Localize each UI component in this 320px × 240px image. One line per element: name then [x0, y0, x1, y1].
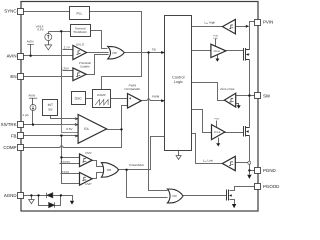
wire zero-cross output to Control Logic	[192, 83, 225, 101]
arrow zero-cross ground	[237, 105, 241, 109]
arrow high Drive return	[215, 59, 219, 62]
svg-text:0.6V: 0.6V	[37, 28, 43, 32]
glyph hysteresis OVP	[82, 159, 86, 163]
pin labels right	[263, 20, 279, 190]
wire PGND pin stub	[250, 170, 255, 172]
arrowheads	[70, 25, 252, 208]
wire Thermal Shutdown to OR1	[91, 31, 108, 49]
pin FB	[18, 133, 24, 139]
pin labels left	[1, 9, 17, 198]
wire VREF 0.6V vertical to reference box	[61, 32, 63, 125]
pin AGND	[18, 193, 24, 199]
wire EN row to Precision Enable	[24, 76, 73, 78]
glyph hysteresis Zero-cross	[230, 99, 234, 103]
wire SD: OR1 output to Control Logic	[125, 52, 163, 54]
wire Precision Enable output to OR1	[87, 55, 109, 75]
MOSFET Q1 high side P-FET	[244, 48, 250, 61]
wire zero-cross lower input stub	[236, 104, 239, 106]
glyph plus PWM comparator	[129, 97, 131, 99]
block Control Logic	[165, 16, 192, 151]
pin COMP	[18, 145, 24, 151]
wire 2.7V input to UVLO	[63, 49, 73, 51]
source VREF 0.6V	[45, 34, 52, 41]
wire SD vertical down to OR3	[149, 53, 168, 191]
PINS	[18, 9, 261, 199]
IC outline	[21, 2, 258, 212]
wire PowerBAD: OR2 output to Control Logic	[119, 137, 165, 170]
svg-text:AVIN: AVIN	[27, 40, 34, 44]
node AGND junction 1	[30, 194, 32, 196]
wire FB to OVP input	[62, 157, 80, 159]
block VREF 0.6V reference box at EA	[62, 125, 79, 133]
gate OR1 shutdown	[108, 46, 125, 59]
MOSFET Q3 PGOOD open drain	[227, 190, 232, 201]
svg-text:AGND: AGND	[4, 193, 17, 198]
wire OVP output to OR2	[93, 161, 104, 167]
arrow PWM into Control Logic	[161, 99, 165, 102]
bubble ILIM Low rail tap	[248, 161, 251, 164]
wire OR3 output to PGOOD FET gate	[183, 195, 227, 197]
wire Control Logic to high side Drive	[192, 50, 211, 52]
comparator UVLO	[73, 45, 87, 59]
svg-text:Logic: Logic	[174, 80, 183, 84]
wire high Drive bottom stem	[217, 55, 219, 59]
svg-text:0.6V: 0.6V	[66, 127, 72, 131]
node AGND junction 2	[37, 194, 39, 196]
svg-text:Comparator: Comparator	[124, 87, 140, 91]
svg-text:RAMP: RAMP	[97, 93, 106, 97]
node FB to OVP junction	[60, 156, 62, 158]
node FB junction	[60, 134, 62, 136]
diode D1 to AGND	[47, 193, 53, 198]
wire OSC to RAMP	[86, 98, 93, 100]
svg-text:0.54V: 0.54V	[61, 170, 69, 174]
arrow PGND rail ground	[247, 175, 251, 179]
svg-text:1 µA: 1 µA	[22, 113, 28, 117]
svg-text:COMP: COMP	[3, 145, 16, 150]
wire Control Logic to low side Drive	[192, 110, 212, 133]
wire AVIN row	[24, 55, 73, 57]
wire Control Logic ground stem	[178, 151, 180, 156]
node PGND rail junction	[248, 169, 250, 171]
comparator Zero-cross	[224, 93, 235, 107]
svg-text:OVP: OVP	[85, 151, 91, 155]
svg-text:OSC: OSC	[75, 97, 83, 101]
wire VREF source stems	[48, 32, 50, 45]
wire PGOOD FET source to ground arrow	[230, 200, 235, 205]
wire rail N-FET source to PGND	[249, 136, 251, 175]
glyph hysteresis UVLO	[77, 51, 81, 55]
svg-text:PVIN: PVIN	[214, 117, 220, 120]
svg-text:2.7V: 2.7V	[64, 46, 70, 50]
pin SW	[255, 93, 261, 99]
block Thermal Shutdown	[71, 25, 91, 37]
wire SW pin stub	[250, 95, 255, 97]
pin PVIN	[255, 20, 261, 26]
BLOCKS	[43, 7, 192, 151]
node SW rail junction	[248, 94, 250, 96]
node EA output COMP junction	[120, 128, 122, 130]
block RAMP	[93, 90, 111, 108]
label VREF 0.6V	[36, 24, 44, 31]
svg-text:PowerBAD: PowerBAD	[129, 163, 145, 167]
wire AVIN flag2 stem to 1uA source	[32, 99, 34, 125]
driver Drive high side	[211, 44, 226, 57]
pin SS/TRK	[18, 122, 24, 128]
diode D2 from AGND	[49, 202, 55, 207]
ground AGND flag	[29, 200, 35, 204]
wire FB vertical to OVP and UVP	[62, 136, 80, 184]
wire SS/TRK row to EA	[24, 124, 79, 126]
node SD junction	[147, 51, 149, 53]
wire PGOOD FET drain to PGOOD pin	[230, 187, 255, 191]
node PowerBAD junction	[125, 169, 127, 171]
svg-text:Control: Control	[172, 75, 184, 79]
glyph hysteresis ILIM High	[229, 25, 233, 29]
svg-text:Zero-cross: Zero-cross	[220, 87, 235, 91]
wire Control Logic to ILIM Low output	[192, 134, 223, 164]
wire SYNC to PLL	[24, 11, 70, 13]
glyph hysteresis ILIM Low	[229, 162, 233, 166]
glyph EA input chevrons	[75, 118, 78, 137]
wire AVIN flag stem	[30, 45, 32, 56]
arrow PGOOD FET source ground	[232, 204, 236, 208]
wire high Drive supply stem	[215, 39, 217, 47]
current source 1uA	[30, 105, 36, 111]
wire RAMP output to PWM comparator	[111, 98, 128, 100]
block PLL	[70, 7, 90, 20]
gate OR3 pgood driver	[167, 189, 183, 203]
svg-text:UVLO: UVLO	[76, 42, 85, 46]
block INT SS	[43, 100, 58, 116]
wire low Drive supply stem	[216, 121, 218, 128]
wire PowerBAD down to OR3	[127, 170, 168, 198]
node AVIN flag junction	[29, 55, 31, 57]
TRIANGLES	[73, 19, 236, 185]
svg-text:AVIN: AVIN	[28, 94, 35, 98]
glyph hysteresis Precision Enable	[76, 73, 80, 77]
wire INT SS output to EA	[51, 116, 79, 119]
arrow ILIM High sense into rail	[246, 25, 249, 28]
svg-text:PVIN: PVIN	[263, 20, 273, 25]
svg-text:1.35V: 1.35V	[61, 67, 69, 71]
node 1uA on SS/TRK	[32, 123, 34, 125]
wire VREF to Thermal Shutdown	[49, 31, 71, 33]
wire diode branch lower	[39, 196, 61, 206]
svg-text:Enable: Enable	[80, 64, 90, 68]
wire PWM output to Control Logic with hop over SD	[142, 99, 163, 101]
supply flag AVIN at soft-start	[29, 97, 37, 99]
pin AVIN	[18, 54, 24, 60]
wire rail P-FET source to N-FET drain	[249, 60, 251, 128]
gate OR2 powergood	[101, 163, 118, 178]
comparator ILIM High	[223, 19, 236, 34]
svg-text:Shutdown: Shutdown	[73, 30, 87, 34]
comparator PWM	[128, 94, 142, 109]
svg-text:FB: FB	[11, 133, 17, 138]
svg-text:SYNC: SYNC	[4, 9, 16, 14]
wire PLL output to RAMP	[90, 12, 142, 90]
arrow AGND to power ground	[70, 201, 74, 205]
pin SYNC	[18, 9, 24, 15]
wire 0.675V input to OVP	[60, 163, 80, 165]
svg-text:AVIN: AVIN	[7, 54, 17, 59]
wire ILIM Low sense to rail bubble	[236, 162, 248, 164]
svg-text:INT: INT	[48, 103, 53, 107]
wire high side Drive to P-FET gate	[226, 50, 244, 52]
waveform sawtooth in RAMP	[95, 100, 108, 106]
pin PGND	[255, 168, 261, 174]
wire ILIM High sense to PVIN rail	[236, 26, 247, 28]
svg-text:Drive: Drive	[214, 50, 221, 53]
wire EA output	[107, 129, 122, 131]
arrow SD into Control Logic	[161, 51, 165, 54]
OR GATES	[101, 46, 183, 203]
driver Drive low side	[212, 125, 225, 140]
pin EN	[18, 74, 24, 80]
svg-text:UVP: UVP	[85, 182, 91, 186]
svg-text:Drive: Drive	[214, 131, 221, 134]
pin PGOOD	[255, 184, 261, 190]
svg-text:PGND: PGND	[263, 168, 276, 173]
comparator ILIM Low	[222, 156, 235, 170]
supply flag AVIN upper	[27, 43, 34, 45]
wire low Drive bottom stem	[218, 138, 220, 144]
wire Control Logic to ILIM High output	[192, 26, 223, 28]
op-amp EA	[78, 115, 107, 144]
svg-text:SS/TRK: SS/TRK	[1, 122, 17, 127]
wire FB row to EA	[24, 135, 79, 137]
svg-text:PLL: PLL	[76, 11, 82, 15]
ground below VREF	[45, 45, 52, 50]
glyph hysteresis UVP	[82, 177, 86, 181]
MOSFET Q2 low side N-FET	[244, 126, 250, 137]
node VREF tap junction	[60, 30, 62, 32]
node AGND junction 3	[60, 194, 62, 196]
svg-text:PWM: PWM	[152, 94, 160, 98]
wire 1.35V input to Precision Enable	[63, 70, 73, 72]
comparator OVP	[80, 154, 93, 167]
wire AGND ground stem	[31, 196, 33, 200]
svg-text:SW: SW	[263, 93, 271, 98]
comparator Precision Enable	[73, 68, 86, 81]
arrow low Drive return	[216, 143, 220, 146]
comparator UVP	[80, 172, 93, 185]
wire AGND row	[24, 196, 73, 201]
block OSC	[72, 92, 86, 105]
ground flag below Control Logic	[176, 156, 181, 160]
wire COMP row to EA output node	[24, 130, 122, 148]
hysteresis glyphs	[75, 25, 234, 181]
wire UVLO output to OR1	[87, 52, 109, 54]
wire zero-cross input from SW rail	[236, 95, 250, 97]
wire 0.54V input to UVP	[61, 173, 80, 175]
svg-text:0.675V: 0.675V	[61, 160, 71, 164]
svg-text:PGOOD: PGOOD	[263, 184, 279, 189]
wire PVIN pin to rail	[250, 22, 255, 50]
wire EA output up to PWM comparator	[122, 106, 128, 130]
wire low side Drive to N-FET gate	[225, 132, 244, 134]
wire UVP output to OR2	[93, 173, 104, 179]
svg-text:EN: EN	[10, 74, 16, 79]
